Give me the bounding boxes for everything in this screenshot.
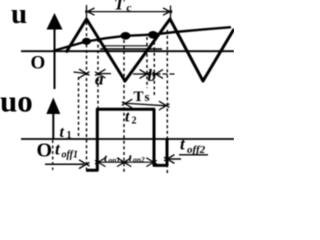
u axis arrowhead: [47, 13, 63, 30]
svg-text:off1: off1: [62, 150, 78, 161]
uo axis continuation below origin: [52, 140, 54, 170]
Tc right arrowhead: [163, 8, 172, 15]
uo horizontal axis: [21, 138, 234, 140]
dimension a: right arrowhead into 86.5: [79, 69, 90, 78]
dashed line x=147: [146, 37, 148, 88]
svg-text:t: t: [60, 124, 65, 141]
u horizontal axis: [21, 50, 234, 52]
svg-text:O: O: [31, 53, 46, 74]
dashed line x=78.5: [78, 77, 80, 139]
dashed line x=124 (valley): [123, 40, 125, 174]
Ts left arrowhead: [122, 99, 133, 108]
sample dot 3: [148, 31, 158, 39]
output pulse waveform: [86, 109, 167, 170]
svg-text:s: s: [145, 89, 150, 104]
dimension a: right line: [98, 73, 111, 75]
triangle carrier wave: [66, 19, 234, 81]
svg-text:on1: on1: [109, 156, 121, 165]
dashed line x=154.3: [153, 36, 155, 95]
svg-text:T: T: [134, 89, 144, 105]
hold level line 1: [100, 48, 162, 50]
Tc right tick: [170, 6, 172, 19]
uo vertical axis: [52, 112, 54, 140]
Tc dimension line: [88, 11, 169, 13]
dimension b: left line: [133, 73, 146, 75]
svg-text:2: 2: [132, 116, 137, 127]
sample dot 2: [121, 32, 131, 40]
t_off2 arrow line: [168, 158, 182, 160]
t_off2 arrowhead: [164, 155, 175, 164]
svg-text:u: u: [11, 0, 27, 30]
dashed line x=98 (pulse rise): [97, 39, 99, 109]
dimension a: left arrowhead into 98: [95, 69, 106, 78]
dimension b: arrowhead into 147: [140, 70, 151, 79]
u vertical axis: [54, 24, 56, 89]
dimension b: right line: [156, 73, 177, 75]
svg-text:O: O: [37, 140, 53, 162]
t_on1 right arrowhead: [117, 158, 128, 167]
t_on2 left arrowhead: [121, 158, 132, 167]
svg-text:1: 1: [67, 130, 72, 141]
t_off2 underline: [179, 154, 208, 156]
uo axis arrowhead: [46, 98, 60, 115]
Tc left tick: [86, 5, 88, 18]
hold level line 2: [104, 45, 148, 47]
t_on1 left arrowhead: [95, 158, 106, 167]
svg-text:on2: on2: [133, 155, 145, 164]
svg-text:b: b: [148, 66, 157, 85]
t_on dimension line: [99, 161, 153, 163]
sample dot 1: [82, 38, 91, 45]
dashed line x=86.5 (under peak 1): [86, 22, 88, 170]
svg-text:t: t: [125, 109, 130, 126]
dashed line x=167.3 (period end): [166, 30, 168, 174]
t_off1 dimension line: [45, 163, 84, 165]
svg-text:a: a: [95, 70, 104, 89]
control signal line: [54, 27, 232, 51]
dimension b: arrowhead into 155.5: [153, 70, 164, 79]
Tc left arrowhead: [85, 8, 94, 15]
dimension a: left line: [74, 72, 86, 73]
svg-text:uo: uo: [0, 84, 33, 119]
Ts dimension line: [125, 103, 166, 106]
t_on2 right arrowhead: [146, 158, 157, 167]
t_off1 arrowhead: [79, 160, 90, 169]
Ts right arrowhead: [159, 101, 170, 110]
